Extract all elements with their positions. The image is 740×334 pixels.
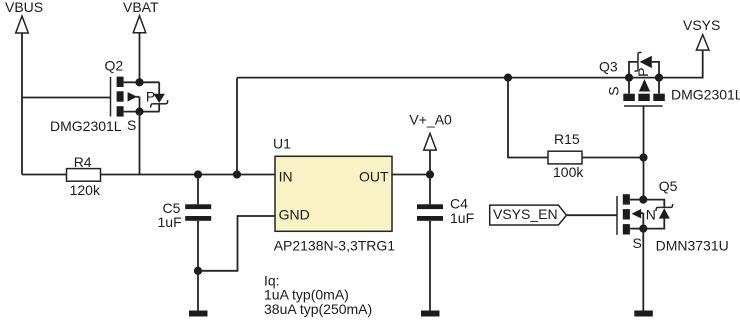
body diode branch [158,82,160,94]
svg-text:N: N [646,207,656,223]
ground under C5 [189,311,208,317]
ground under C4 [421,311,440,317]
svg-text:U1: U1 [273,136,291,152]
svg-text:Q5: Q5 [659,178,678,194]
junction C5 top [194,170,202,178]
resistor R4 [67,154,101,198]
drain stub [658,78,660,94]
junction Q3 drain [655,74,663,82]
junction OUT node [426,170,434,178]
drain lead [124,81,160,83]
svg-text:DMG2301L: DMG2301L [671,87,740,103]
svg-text:R15: R15 [554,131,580,147]
net flag VSYS_EN [490,205,567,225]
drain lead [630,199,643,201]
svg-text:VSYS_EN: VSYS_EN [493,206,558,222]
resistor R15 [548,131,584,180]
junction Q3 source [625,74,633,82]
capacitor C5 [158,175,212,271]
svg-text:DMG2301L: DMG2301L [50,118,122,134]
power flag VBAT [133,16,146,33]
body arrow (P-channel) [639,79,650,92]
gate line [110,77,112,117]
svg-text:V+_A0: V+_A0 [409,112,452,128]
junction riser to top rail [233,170,241,178]
gate line [616,196,618,235]
source lead [630,228,643,230]
source stub [628,78,630,94]
wire main rail left to R4 [22,174,67,176]
junction Q5 source [639,225,647,233]
svg-text:S: S [633,235,642,251]
transistor Q5 [617,178,729,254]
junction Q2 drain / VBAT [135,78,143,86]
svg-text:1uF: 1uF [450,210,474,226]
wire VBUS to Q2 gate [22,97,110,99]
transistor Q2 [50,58,168,135]
svg-text:P: P [146,89,155,105]
channel segments [623,94,635,101]
junction top rail / R15 branch [504,74,512,82]
junction C5 bottom / U1 GND [194,267,202,275]
svg-text:38uA typ(250mA): 38uA typ(250mA) [264,301,372,317]
wire R15 to Q3 gate node [582,157,644,159]
wire Q2 source to main rail [139,112,141,175]
wire R15 branch [508,78,548,158]
svg-text:Q2: Q2 [105,58,124,74]
op-amp U1 (regulator block) [273,136,395,254]
junction Q2 source [135,108,143,116]
gate line [624,105,663,107]
svg-text:VBAT: VBAT [123,0,159,15]
note Iq [264,272,372,317]
svg-text:GND: GND [279,207,310,223]
power flag VBUS [16,16,29,33]
svg-text:100k: 100k [553,164,584,180]
ground under Q5 [634,311,653,317]
body diode branch [643,200,664,207]
svg-text:Q3: Q3 [599,59,618,75]
wire U1 OUT to node [392,174,430,176]
source lead [124,111,160,113]
body arrow (P-channel) [128,92,138,101]
power flag V+_A0 [424,133,437,174]
wire Q5 source to ground [642,229,644,311]
wire R4 to U1 IN [101,174,276,176]
wire C5 to ground [197,271,199,311]
svg-text:S: S [606,86,622,95]
svg-text:OUT: OUT [359,168,389,184]
svg-text:IN: IN [279,168,293,184]
wire VSYS_EN to Q5 gate [567,214,618,216]
svg-text:S: S [127,117,136,133]
wire VBAT drop to Q2 drain [139,33,141,83]
power flag VSYS [696,35,709,51]
channel segments [117,77,124,87]
capacitor C4 [417,175,474,311]
svg-text:VBUS: VBUS [5,0,43,15]
svg-text:AP2138N-3,3TRG1: AP2138N-3,3TRG1 [274,238,396,254]
junction Q5 drain [639,196,647,204]
wire riser up [236,78,238,175]
transistor Q3 [599,52,740,106]
wire between stubs [629,77,659,79]
svg-text:120k: 120k [70,182,101,198]
wire top rail to VSYS [659,50,703,78]
body arrow (N-channel) [632,209,642,218]
wire Q3 gate stub down [643,106,645,200]
body diode branch [629,62,638,78]
wire U1 GND path [198,216,275,271]
wire VBUS vertical drop [21,33,23,175]
svg-text:DMN3731U: DMN3731U [656,238,729,254]
svg-text:1uF: 1uF [158,214,182,230]
wire top rail to Q3 [237,77,629,79]
svg-text:R4: R4 [74,154,92,170]
svg-text:VSYS: VSYS [683,17,720,33]
channel segments [623,194,630,204]
junction R15 / Q3 gate / Q5 drain [639,153,647,161]
